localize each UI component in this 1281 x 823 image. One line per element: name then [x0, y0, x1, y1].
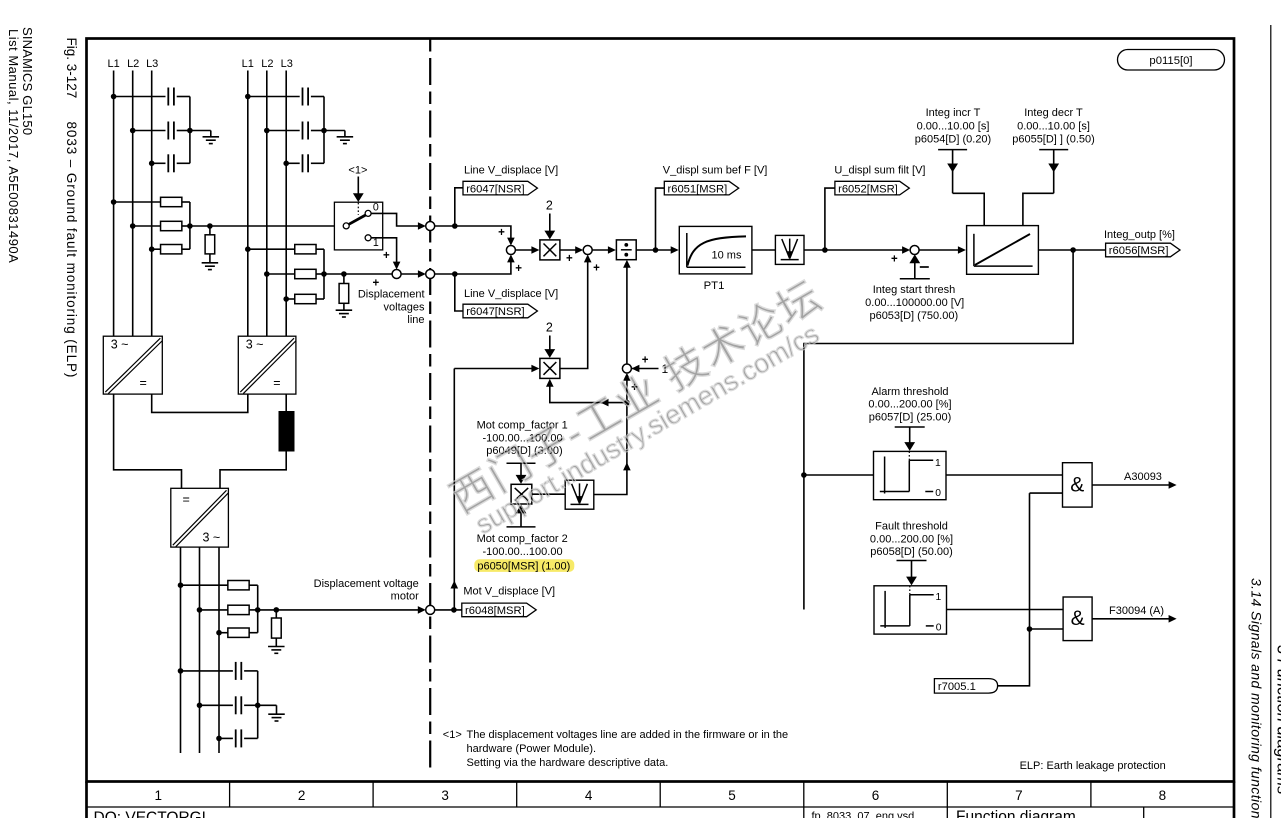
svg-text:Line V_displace [V]: Line V_displace [V] [464, 165, 558, 177]
svg-text:7: 7 [1015, 788, 1023, 803]
junction L2 cap 1 [130, 128, 136, 134]
svg-text:Integ start thresh: Integ start thresh [873, 284, 956, 296]
parameter input p6058 [897, 560, 927, 562]
resistor L1 row system 2 [248, 248, 295, 250]
svg-text:=: = [273, 376, 280, 390]
svg-text:r6051[MSR]: r6051[MSR] [668, 183, 728, 195]
wire L2 phase 1 [132, 71, 134, 337]
junction L2 res 2 [264, 271, 270, 277]
rectifier U1 system 1 [103, 336, 162, 394]
svg-text:L1: L1 [107, 58, 119, 70]
connector r6056[MSR] [1106, 243, 1180, 257]
wire limiter to compensation junction [594, 403, 627, 495]
capacitor L3 row system 2 [286, 162, 300, 164]
svg-text:-100.00...100.00: -100.00...100.00 [482, 546, 562, 558]
wire AND2 output F30094 [1092, 618, 1170, 620]
parameter input p6055 [1039, 149, 1068, 151]
junction L1 cap 1 [111, 94, 117, 100]
wire constant into X2 [549, 336, 551, 352]
ground capacitor bank 1 [203, 136, 220, 138]
svg-text:fp_8033_07_eng.vsd: fp_8033_07_eng.vsd [812, 811, 915, 819]
wire DC link series [152, 394, 248, 412]
wire X2 output to S4 [560, 259, 588, 369]
svg-text:+: + [566, 253, 573, 265]
svg-text:3 ~: 3 ~ [111, 338, 129, 352]
wire motor phase 1 [180, 547, 182, 753]
watermark forum [442, 272, 842, 544]
wire constant into X1 [549, 214, 551, 233]
ground capacitor bank 2 [337, 136, 354, 138]
highlight p6050 [474, 559, 574, 572]
wire integrator feedback [804, 250, 1073, 610]
filter block PT1 [679, 226, 752, 274]
svg-text:2: 2 [546, 199, 553, 213]
svg-text:U_displ sum filt [V]: U_displ sum filt [V] [834, 165, 925, 177]
junction feedback alarm [801, 472, 807, 478]
absolute value block [775, 235, 804, 264]
svg-text:0.00...10.00 [s]: 0.00...10.00 [s] [917, 120, 990, 132]
constant 1 into S2 [632, 368, 659, 370]
wire note arrow into switch [357, 177, 359, 194]
svg-text:F30094 (A): F30094 (A) [1109, 605, 1164, 617]
wire star point 2 to summing node [324, 273, 392, 275]
wire star point 1 to switch [190, 225, 335, 227]
svg-text:Fig. 3-127: Fig. 3-127 [64, 38, 79, 99]
wire L1 phase 2 [247, 71, 249, 337]
summing node S2 [622, 364, 631, 373]
svg-text:r6047[NSR]: r6047[NSR] [466, 183, 524, 195]
wire to ground motor capacitors [258, 704, 277, 706]
svg-text:3: 3 [441, 788, 449, 803]
svg-text:+: + [515, 263, 522, 275]
junction motor shunt [274, 607, 280, 613]
svg-text:0: 0 [936, 622, 942, 633]
svg-text:ELP: Earth leakage protection: ELP: Earth leakage protection [1020, 760, 1166, 772]
junction motor cap 3 [216, 736, 222, 742]
svg-text:0.00...200.00 [%]: 0.00...200.00 [%] [868, 399, 951, 411]
svg-text:L3: L3 [281, 58, 293, 70]
junction L3 res 2 [283, 296, 289, 302]
svg-text:+: + [891, 254, 898, 266]
junction L3 cap 1 [149, 161, 155, 167]
svg-text:DO: VECTORGL: DO: VECTORGL [94, 810, 211, 819]
svg-text:L1: L1 [242, 58, 254, 70]
svg-text:8: 8 [1159, 788, 1167, 803]
node B line displacement sum [426, 270, 435, 279]
connector r6047[NSR] upper [463, 181, 537, 195]
wire to ground capacitor bank 1 [190, 130, 211, 132]
svg-text:1: 1 [935, 458, 941, 469]
svg-text:0.00...10.00 [s]: 0.00...10.00 [s] [1017, 120, 1090, 132]
svg-text:Function diagram: Function diagram [956, 809, 1076, 819]
wire lead r6047 upper [455, 188, 463, 226]
svg-text:r6047[NSR]: r6047[NSR] [466, 306, 524, 318]
wire L1 phase 1 [113, 71, 115, 337]
svg-text:The displacement voltages line: The displacement voltages line are added… [467, 729, 789, 741]
svg-text:line: line [407, 314, 424, 326]
parameter input p6050 [507, 526, 536, 528]
wire motor capacitor bus [257, 671, 259, 739]
wire reactor to inverter [220, 452, 286, 489]
connector r6051[MSR] [664, 181, 738, 195]
junction L1 res 2 [245, 246, 251, 252]
node A line displacement [426, 222, 435, 231]
wire DC link left [114, 394, 182, 488]
svg-text:Alarm threshold: Alarm threshold [871, 386, 948, 398]
junction r6048 [451, 607, 457, 613]
wire X1 to summing S4 [560, 249, 579, 251]
svg-text:8033 – Ground fault monitoring: 8033 – Ground fault monitoring (ELP) [64, 122, 79, 379]
svg-text:6: 6 [872, 788, 880, 803]
wire motor resistor bus [257, 585, 259, 633]
svg-text:PT1: PT1 [704, 280, 725, 292]
junction L3 res 1 [149, 246, 155, 252]
svg-text:<1>: <1> [348, 164, 367, 176]
junction res bus 1 [187, 223, 193, 229]
svg-text:Integ_outp [%]: Integ_outp [%] [1104, 229, 1175, 241]
wire node B to summing S3 [435, 259, 511, 274]
junction L1 cap 2 [245, 94, 251, 100]
wire AND1 output A30093 [1092, 484, 1170, 486]
footer title row [85, 782, 88, 819]
page edge rule [1270, 25, 1272, 818]
junction motor res 3 [216, 630, 222, 636]
junction L2 res 1 [130, 223, 136, 229]
wire capacitor bus system 2 [323, 97, 325, 164]
svg-text:=: = [183, 493, 190, 507]
wire PT1 to absolute value [752, 249, 776, 251]
summing node S5 [910, 246, 919, 255]
comparator fault threshold [874, 586, 947, 634]
junction shunt resistor 2 [341, 271, 347, 277]
summing node S1 line [392, 270, 401, 279]
junction shunt resistor 1 [207, 223, 213, 229]
wire fault comparator to AND2 [947, 609, 1064, 611]
svg-text:SINAMICS GL150: SINAMICS GL150 [20, 27, 35, 135]
wire enable to AND1 [1030, 492, 1063, 494]
svg-text:10 ms: 10 ms [712, 249, 742, 261]
svg-text:3 ~: 3 ~ [203, 531, 221, 545]
capacitor L1 row system 2 [248, 96, 300, 98]
junction r6047 lower [452, 271, 458, 277]
svg-text:Fault threshold: Fault threshold [875, 521, 948, 533]
junction L2 cap 2 [264, 128, 270, 134]
svg-text:1: 1 [936, 592, 942, 603]
wire node C to r6048 [435, 609, 462, 611]
svg-text:r6048[MSR]: r6048[MSR] [465, 605, 525, 617]
wire switch output 0 to node A [371, 213, 422, 226]
resistor shunt to ground 2 [343, 274, 345, 284]
junction enable AND2 [1027, 626, 1033, 632]
svg-text:motor: motor [391, 591, 419, 603]
capacitor L2 row system 2 [267, 130, 300, 132]
connector r7005.1 [934, 679, 997, 694]
ground shunt 1 [202, 262, 219, 264]
svg-text:r7005.1: r7005.1 [938, 681, 976, 693]
svg-text:Integ incr T: Integ incr T [926, 107, 981, 119]
svg-text:V_displ sum bef F [V]: V_displ sum bef F [V] [663, 165, 768, 177]
svg-text:L2: L2 [127, 58, 139, 70]
wire junction to S2 [626, 377, 628, 402]
capacitor L3 row system 1 [152, 162, 166, 164]
node C motor displacement [426, 605, 435, 614]
wire switch output 1 to summing S1 [371, 238, 397, 265]
wire L3 phase 2 [285, 71, 287, 337]
wire absolute value to summing S5 [804, 249, 906, 251]
wire feedback to alarm comparator [804, 474, 874, 476]
svg-text:&: & [1071, 607, 1085, 630]
inverter U3 motor side [171, 488, 229, 547]
svg-text:3 ~: 3 ~ [246, 338, 264, 352]
switch arm [349, 215, 366, 224]
capacitor L1 row system 1 [114, 96, 166, 98]
svg-text:p6055[D] ] (0.50): p6055[D] ] (0.50) [1012, 134, 1095, 146]
svg-text:p6053[D] (750.00): p6053[D] (750.00) [869, 310, 958, 322]
svg-text:4: 4 [585, 788, 593, 803]
junction motor cap 1 [178, 668, 184, 674]
wire motor displacement to X2 [454, 368, 535, 370]
divider block [616, 240, 636, 260]
svg-text:0: 0 [935, 488, 941, 499]
summing node S3 [506, 246, 515, 255]
junction L1 res 1 [111, 199, 117, 205]
svg-text:1: 1 [154, 788, 162, 803]
switch pivot contact [343, 223, 349, 229]
wire S3 to multiplier X1 [515, 249, 535, 251]
resistor L3 row system 1 [152, 248, 161, 250]
wire node A to summing S3 [435, 226, 511, 241]
resistor motor shunt [275, 610, 277, 618]
capacitor motor row 3 [219, 737, 233, 739]
capacitor motor row 1 [181, 670, 233, 672]
gate AND1 [1063, 463, 1093, 507]
wire rectifier 2 to smoothing reactor [285, 394, 287, 411]
junction r6047 upper [452, 223, 458, 229]
svg-text:voltages: voltages [384, 301, 425, 313]
wire lead r6051 [656, 188, 665, 250]
wire L2 phase 2 [266, 71, 268, 337]
switch contact 0 [365, 210, 371, 216]
svg-text:Setting via the hardware descr: Setting via the hardware descriptive dat… [467, 757, 669, 769]
junction cap bus 2 [321, 128, 327, 134]
summing node S4 [583, 246, 592, 255]
switch contact 1 [365, 235, 371, 241]
limiter block motor compensation [565, 480, 594, 509]
interface boundary dashed line [429, 39, 431, 770]
svg-text:r6052[MSR]: r6052[MSR] [838, 183, 898, 195]
svg-text:<1>: <1> [443, 729, 462, 741]
svg-text:0.00...200.00 [%]: 0.00...200.00 [%] [870, 533, 953, 545]
label minus S5 [920, 266, 929, 268]
wire integrator output [1038, 249, 1105, 251]
svg-text:1: 1 [373, 237, 379, 249]
wire S4 to divider [592, 249, 612, 251]
junction motor res bus [255, 607, 261, 613]
junction integrator output [1070, 247, 1076, 253]
wire motor phase 3 [218, 547, 220, 753]
wire lead r6052 [825, 188, 835, 250]
multiplier X3 [511, 484, 532, 504]
svg-text:List Manual, 11/2017, A5E00831: List Manual, 11/2017, A5E00831490A [6, 29, 21, 263]
svg-text:2: 2 [546, 321, 553, 335]
resistor motor row 2 [200, 609, 229, 611]
junction res bus 2 [321, 271, 327, 277]
svg-text:Displacement: Displacement [358, 289, 425, 301]
wire to ground capacitor bank 2 [324, 130, 345, 132]
wire resistor bus system 1 [189, 202, 191, 249]
parameter input p6049 [507, 462, 536, 464]
wire motor phase 2 [199, 547, 201, 753]
wire alarm comparator to AND1 [946, 474, 1063, 476]
svg-text:+: + [498, 227, 505, 239]
junction compensation [624, 400, 630, 406]
footer column row [87, 806, 1235, 808]
capacitor motor row 2 [200, 704, 233, 706]
svg-text:r6056[MSR]: r6056[MSR] [1109, 245, 1169, 257]
junction motor cap 2 [197, 703, 203, 709]
svg-text:p6057[D] (25.00): p6057[D] (25.00) [869, 411, 952, 423]
wire r7005.1 enable line [998, 493, 1030, 686]
parameter input p6053 threshold [900, 278, 930, 280]
svg-text:+: + [373, 278, 380, 290]
svg-text:p6058[D] (50.00): p6058[D] (50.00) [870, 546, 953, 558]
junction motor cap bus [255, 703, 261, 709]
resistor L3 row system 2 [286, 298, 295, 300]
svg-text:A30093: A30093 [1124, 471, 1162, 483]
resistor L1 row system 1 [114, 201, 161, 203]
wire S1 to node B [401, 273, 422, 275]
junction cap bus 1 [187, 128, 193, 134]
resistor L2 row system 1 [133, 225, 161, 227]
rectifier U2 system 2 [238, 336, 296, 394]
svg-text:p6054[D] (0.20): p6054[D] (0.20) [915, 134, 991, 146]
gate AND2 [1063, 597, 1092, 641]
wire S5 to integrator [919, 249, 961, 251]
svg-text:Line V_displace [V]: Line V_displace [V] [464, 288, 558, 300]
wire compensation into X2 bottom [550, 385, 627, 402]
ground shunt 2 [336, 309, 353, 311]
comparator alarm threshold [874, 451, 947, 499]
wire S2 to divider bottom [626, 264, 628, 364]
connector r6047[NSR] lower [463, 304, 537, 318]
connector r6048[MSR] [462, 603, 536, 617]
ground motor shunt [268, 646, 285, 648]
svg-text:L2: L2 [261, 58, 273, 70]
svg-text:3.14 Signals and monitoring fu: 3.14 Signals and monitoring functions [1249, 578, 1265, 818]
parameter input p6057 [895, 426, 925, 428]
svg-text:3 Function diagrams: 3 Function diagrams [1274, 645, 1281, 795]
wire lead r6047 lower [455, 274, 463, 311]
svg-text:&: & [1070, 474, 1084, 497]
wire L3 phase 1 [151, 71, 153, 337]
wire capacitor bus system 1 [189, 97, 191, 164]
svg-text:5: 5 [728, 788, 736, 803]
connector r6052[MSR] [835, 181, 909, 195]
svg-text:Mot V_displace [V]: Mot V_displace [V] [463, 586, 555, 598]
wire resistor bus system 2 [323, 249, 325, 299]
junction L3 cap 2 [283, 161, 289, 167]
svg-text:=: = [140, 376, 147, 390]
parameter input p6054 [938, 149, 967, 151]
svg-text:2: 2 [298, 788, 306, 803]
wire motor star point to node C [258, 609, 422, 611]
junction motor res 1 [178, 582, 184, 588]
junction r6051 [653, 247, 659, 253]
resistor motor row 1 [181, 584, 229, 586]
capacitor L2 row system 1 [133, 130, 166, 132]
svg-text:+: + [593, 262, 600, 274]
wire divider to PT1 [636, 249, 672, 251]
svg-text:Displacement voltage: Displacement voltage [314, 578, 419, 590]
svg-text:0.00...100000.00 [V]: 0.00...100000.00 [V] [865, 297, 964, 309]
svg-text:L3: L3 [146, 58, 158, 70]
junction r6052 [822, 247, 828, 253]
svg-text:p6050[MSR] (1.00): p6050[MSR] (1.00) [477, 561, 570, 573]
resistor L2 row system 2 [267, 273, 295, 275]
resistor shunt to ground 1 [209, 226, 211, 235]
switch S1 select displacement source [334, 202, 382, 250]
svg-text:+: + [383, 250, 390, 262]
resistor motor row 3 [219, 632, 228, 634]
multiplier X1 [540, 240, 560, 260]
svg-text:p0115[0]: p0115[0] [1149, 55, 1192, 67]
smoothing reactor (black bar) [279, 411, 295, 452]
parameter reference p0115[0] [1118, 50, 1225, 71]
wire X3 to limiter [532, 493, 565, 495]
svg-text:0: 0 [373, 202, 379, 214]
integrator block [967, 226, 1039, 275]
svg-text:hardware (Power Module).: hardware (Power Module). [467, 743, 597, 755]
junction motor res 2 [197, 607, 203, 613]
svg-text:Integ decr T: Integ decr T [1024, 107, 1083, 119]
multiplier X2 [540, 358, 560, 378]
ground motor capacitors [268, 713, 285, 715]
wire enable to AND2 [1030, 628, 1064, 630]
